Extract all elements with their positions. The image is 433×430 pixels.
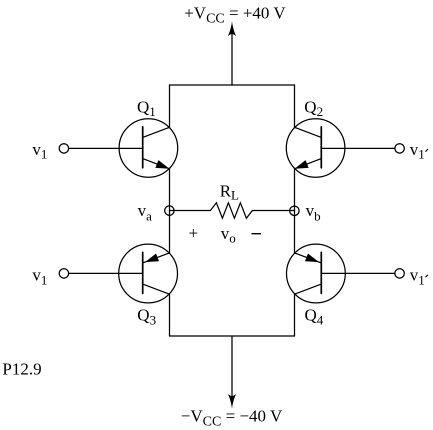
label v1 bottom-left [32, 266, 47, 288]
label node va [138, 201, 153, 224]
label Q2 [304, 97, 323, 119]
transistor Q2 [286, 119, 345, 178]
node a [165, 206, 174, 215]
wire base Q4 [321, 272, 395, 274]
power -VCC arrow [228, 336, 237, 409]
wire left rail upper segment [169, 85, 171, 127]
wire bottom rail [170, 335, 295, 337]
svg-text:Q3: Q3 [137, 306, 156, 328]
label v1 top-left [32, 140, 47, 162]
node b [290, 206, 299, 215]
input terminal v1 bottom-left [59, 269, 68, 278]
input terminal v1' top-right [395, 144, 404, 153]
wire left rail middle segment [169, 169, 171, 253]
svg-text:v1: v1 [410, 140, 425, 162]
svg-text:RL: RL [220, 181, 239, 202]
transistor Q4 [287, 244, 346, 303]
transistor Q3 [119, 244, 178, 303]
svg-text:−VCC = −40 V: −VCC = −40 V [181, 407, 283, 430]
svg-text:v1: v1 [410, 266, 425, 288]
label Q4 [305, 306, 324, 328]
label vo minus sign [252, 233, 262, 235]
label Q3 [137, 306, 156, 328]
svg-text:+: + [189, 223, 199, 242]
label vo plus sign [189, 223, 199, 242]
svg-text:P12.9: P12.9 [2, 359, 41, 378]
wire top rail [170, 84, 295, 86]
label -VCC = -40 V [181, 407, 283, 430]
svg-text:vo: vo [221, 224, 236, 246]
svg-text:v1: v1 [32, 266, 47, 288]
label vo [221, 224, 236, 246]
label v1' top-right [410, 140, 428, 162]
label P12.9 [2, 359, 41, 378]
svg-text:Q4: Q4 [305, 306, 324, 328]
svg-text:Q1: Q1 [137, 97, 156, 119]
label node vb [306, 201, 321, 224]
wire right rail upper segment [294, 85, 296, 127]
wire right rail lower segment [294, 294, 296, 336]
svg-text:v1: v1 [32, 140, 47, 162]
input terminal v1' bottom-right [395, 269, 404, 278]
svg-text:va: va [138, 201, 153, 224]
wire base Q1 [69, 147, 143, 149]
label RL [220, 181, 239, 202]
label Q1 [137, 97, 156, 119]
label v1' bottom-right [410, 266, 428, 288]
resistor RL [170, 203, 295, 218]
svg-text:Q2: Q2 [304, 97, 323, 119]
wire left rail lower segment [169, 294, 171, 336]
input terminal v1 top-left [59, 144, 68, 153]
wire base Q3 [69, 272, 143, 274]
wire base Q2 [321, 147, 395, 149]
label +VCC = +40 V [184, 3, 286, 26]
power +VCC arrow [228, 22, 237, 86]
wire right rail middle segment [294, 169, 296, 253]
transistor Q1 [119, 119, 178, 178]
svg-text:vb: vb [306, 201, 321, 224]
svg-text:+VCC = +40 V: +VCC = +40 V [184, 3, 286, 26]
